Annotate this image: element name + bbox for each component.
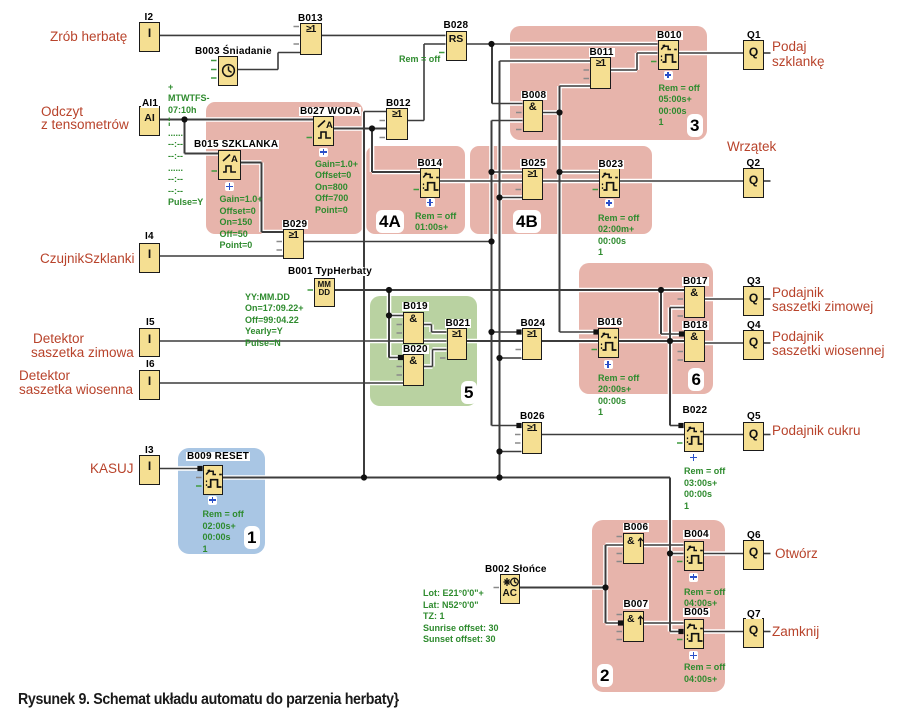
input I4	[139, 243, 160, 273]
wire V4 reset net vertical	[499, 61, 501, 478]
connector label Podajnik	[772, 286, 824, 300]
timer B009	[203, 465, 224, 495]
weekly timer B003	[218, 56, 239, 86]
parameter text at 219.5,194	[220, 194, 263, 252]
green parameter stubs	[196, 53, 683, 640]
wire B011.out to B010.in2	[611, 53, 658, 70]
wire region6 vertical to B018.in1	[661, 290, 684, 334]
output Q4	[743, 330, 764, 360]
parameter expand marker	[689, 651, 698, 660]
junction B027.out branch	[369, 125, 375, 131]
label B025	[520, 159, 547, 168]
label B009 RESET	[186, 452, 250, 461]
connector label CzujnikSzklanki	[40, 252, 135, 266]
label Q4	[746, 321, 762, 330]
junction B019.in1 branch	[386, 312, 392, 318]
connector B020.in1	[398, 355, 403, 360]
wire B017.out to Q3	[705, 298, 744, 300]
label Q7	[746, 610, 762, 619]
wire V2 B028-line down to B008.in1	[492, 44, 523, 104]
timer B016	[598, 328, 619, 358]
label B021	[445, 319, 472, 328]
junction B001 branch	[386, 287, 392, 293]
wire V3 to B025.in1	[492, 171, 523, 173]
wire Q5 stub	[764, 434, 771, 436]
label B023	[598, 160, 625, 169]
wire B029.out to V3 junction	[304, 241, 492, 243]
wire I5 to B021.in2	[160, 340, 447, 342]
connector label KASUJ	[90, 462, 134, 476]
input I5	[139, 328, 160, 358]
label B028	[443, 21, 470, 30]
junction B016 row region6	[667, 338, 673, 344]
input I2	[139, 22, 160, 52]
wire B005.out to Q7	[704, 631, 743, 633]
wire V1 reset net to B012.in1	[364, 112, 386, 478]
and-gate B019	[403, 312, 424, 344]
label I2	[144, 13, 155, 22]
parameter expand marker	[225, 182, 234, 191]
wire B023.out to Q2	[620, 180, 744, 182]
connector label Podajnik	[772, 330, 824, 344]
parameter expand marker	[604, 360, 613, 369]
wire V4 to B026.in4	[500, 451, 522, 453]
connector label z tensometrów	[41, 118, 129, 132]
label B020	[402, 345, 429, 354]
date block B001	[314, 278, 335, 307]
connector B016.in1	[593, 329, 598, 334]
wire Q4 stub	[764, 342, 771, 344]
parameter text at 168,81.5	[168, 82, 209, 210]
wire I3 to B009.in1	[160, 468, 203, 470]
or-gate B011	[590, 57, 611, 89]
label B011	[589, 48, 615, 57]
wire B026.out row to B022 and Q5	[542, 434, 743, 436]
output Q5	[743, 422, 764, 452]
wire B027.out to B012.in3 and B014.in1	[334, 129, 420, 173]
label I5	[145, 318, 156, 327]
wire AI1.out to B027.in1	[160, 119, 313, 121]
label B019	[402, 302, 429, 311]
wire Q1 stub	[764, 52, 771, 54]
section number 4B	[513, 210, 542, 233]
input I6	[139, 370, 160, 400]
junction RS line / V3a	[488, 41, 494, 47]
wire Q7 stub	[764, 631, 771, 633]
wire B013.out to B028.in1	[322, 34, 446, 36]
label B022	[682, 406, 709, 415]
parameter text at 399,54	[399, 54, 440, 66]
edge and-gate B007	[623, 611, 644, 642]
label Q3	[746, 277, 762, 286]
wire B021.out row to B024 B016 B018.in2	[467, 340, 684, 342]
wire B009.out reset line	[223, 477, 670, 479]
junction B002.out	[602, 584, 608, 590]
wire Q2 stub	[764, 180, 771, 182]
wire net V3 to B008.in3	[492, 120, 523, 122]
wire B028.out to B010.in1 (RS line)	[467, 43, 658, 45]
wire B007.out to B005.in1	[644, 622, 684, 624]
connector label Zamknij	[772, 625, 819, 639]
label B026	[519, 412, 546, 421]
parameter expand marker	[208, 496, 217, 505]
input AI1	[139, 106, 160, 136]
connector label saszetki zimowej	[772, 300, 873, 314]
connector B024.in1	[516, 329, 521, 334]
junction B001 line region6	[658, 287, 664, 293]
wire V3 to B024.in1	[492, 331, 522, 333]
region 3 highlight	[510, 26, 707, 140]
wire B012.out to B028.in2	[408, 44, 446, 121]
and-gate B008	[523, 100, 544, 132]
wire V3 to B026.in1	[492, 425, 522, 427]
region 1 highlight	[178, 448, 265, 554]
wire B008.out net (V559)	[543, 86, 599, 332]
connector B022.in1	[678, 423, 683, 428]
wire Q6 stub	[764, 553, 771, 555]
label B004	[683, 530, 710, 539]
parameter text at 415,210.5	[415, 211, 456, 234]
junction reset line V1	[361, 474, 367, 480]
unconnected input stubs	[196, 27, 683, 640]
or-gate B012	[386, 108, 408, 140]
label B008	[521, 91, 548, 100]
connector label saszetki wiosennej	[772, 344, 885, 358]
parameter text at 684,586.5	[684, 587, 725, 610]
connector label Podajnik cukru	[772, 424, 861, 438]
connector label saszetka wiosenna	[19, 383, 133, 397]
label B024	[520, 319, 547, 328]
connector label Otwórz	[775, 547, 818, 561]
label I4	[144, 232, 155, 241]
junction V4 to B025.in4	[496, 194, 502, 200]
wire V3 net vertical	[491, 121, 493, 426]
wire reset vertical to B004.in2 B005.in2	[670, 478, 684, 632]
connector label Podaj	[772, 40, 807, 54]
parameter expand marker	[605, 199, 614, 208]
output Q6	[743, 540, 764, 570]
label B027 WODA	[299, 107, 361, 116]
label B014	[417, 159, 444, 168]
label B007	[623, 600, 650, 609]
wire I4 to B029.in4	[160, 255, 283, 257]
or-gate B021	[447, 328, 468, 360]
astro clock B002	[500, 574, 520, 604]
junction AI1 branch	[181, 116, 187, 122]
wire B001.out to B017.in1	[335, 289, 685, 291]
region 2 highlight	[592, 520, 725, 692]
output Q3	[743, 286, 764, 316]
analog threshold B015	[218, 150, 241, 180]
label B029	[282, 220, 309, 229]
connector label Detektor	[19, 369, 70, 383]
label B005	[683, 608, 710, 617]
wire junction to B006.in2 and B007.in2	[606, 545, 624, 623]
section number 4A	[376, 210, 405, 233]
analog threshold B027	[313, 116, 334, 146]
wire B018.out to Q4	[705, 342, 744, 344]
parameter expand marker	[689, 573, 698, 582]
connector B018.in1	[679, 331, 684, 336]
wire V4 to B025.in4	[500, 197, 523, 199]
label B013	[297, 14, 324, 23]
connector label Detektor	[33, 332, 84, 346]
label B003 Śniadanie	[194, 47, 273, 56]
parameter expand marker	[689, 453, 698, 462]
wire AI junction down to B015.in1	[185, 120, 219, 154]
wire B025.out to B023.in2	[543, 180, 600, 182]
connector B005.in2	[678, 629, 683, 634]
section number 3	[687, 114, 703, 137]
parameter text at 658.5,82.5	[659, 83, 700, 129]
timer B022	[684, 422, 705, 452]
label AI1	[141, 99, 159, 108]
parameter text at 202.5,509	[203, 509, 244, 555]
parameter expand marker	[664, 71, 673, 80]
junction V3 to B025.in1	[488, 169, 494, 175]
wire B003.out to B013.in4	[238, 53, 300, 70]
parameter expand marker	[319, 148, 328, 157]
connector B026.in1	[516, 423, 521, 428]
junction V4 to B024.in4	[496, 355, 502, 361]
region 4A highlight left	[206, 102, 364, 234]
wire B004.out to Q6	[704, 553, 743, 555]
label B002 Słońce	[484, 565, 548, 574]
or-gate B029	[283, 229, 304, 259]
label B001 TypHerbaty	[287, 267, 373, 276]
label I3	[144, 446, 155, 455]
output Q7	[743, 618, 764, 648]
wire B015.out to B029.in1	[241, 163, 283, 233]
label I6	[145, 360, 156, 369]
wire V4 to B024.in4	[500, 357, 522, 359]
input I3	[139, 455, 160, 485]
parameter text at 598,212.5	[598, 213, 639, 259]
wire net V4 to B011.in1	[500, 60, 591, 62]
connector label Zrób herbatę	[50, 30, 127, 44]
label B015 SZKLANKA	[193, 140, 279, 149]
timer B005	[684, 619, 705, 649]
label B016	[597, 318, 624, 327]
connector label szklankę	[772, 55, 825, 69]
section number 6	[688, 368, 704, 391]
section number 2	[597, 664, 613, 687]
rs-latch B028	[446, 31, 467, 61]
region 4A highlight right	[366, 146, 465, 234]
edge and-gate B006	[623, 533, 644, 564]
connector label Odczyt	[41, 105, 83, 119]
or-gate B026	[522, 422, 543, 454]
label Q1	[746, 31, 762, 40]
label B017	[682, 277, 709, 286]
region 4B highlight	[470, 146, 652, 234]
connector B009.in1	[197, 466, 202, 471]
label B006	[623, 523, 650, 532]
and-gate B018	[684, 330, 705, 362]
or-gate B025	[522, 168, 543, 200]
wire B014.out to B025.in2	[440, 180, 522, 182]
timer B023	[599, 168, 620, 198]
junction V3 to B024.in1	[488, 329, 494, 335]
wire Q3 stub	[764, 298, 771, 300]
svg-text:A: A	[326, 120, 333, 131]
parameter text at 245,291.5	[245, 292, 304, 350]
junction V4 to B026.in4	[496, 448, 502, 454]
region 5 highlight	[370, 296, 478, 406]
region 6 highlight	[579, 263, 713, 395]
junction reset vertical B004	[667, 550, 673, 556]
label B018	[682, 321, 709, 330]
wire region6 vertical B017.in3 to B022.in1	[670, 308, 684, 426]
wire B006.out to B004.in1	[644, 544, 684, 546]
wire B020.out to B021.in3	[424, 350, 447, 367]
timer B004	[684, 541, 705, 571]
section number 1	[244, 526, 260, 549]
caption	[18, 691, 399, 709]
label Q2	[746, 159, 762, 168]
wire I6 to B020.in4	[160, 382, 403, 384]
junction B008.out	[556, 109, 562, 115]
connector B007.in2	[618, 620, 623, 625]
output Q1	[743, 40, 764, 70]
junction B008 net to B023.in1	[556, 169, 562, 175]
wire B002.out to junction	[520, 587, 606, 589]
and-gate B020	[403, 354, 424, 386]
parameter expand marker	[426, 198, 435, 207]
label Q6	[746, 531, 762, 540]
connector label saszetka zimowa	[31, 346, 134, 360]
wire I2 to B013.in2	[160, 34, 300, 36]
wire B001 branch to B019.in1 and B020.in1	[389, 290, 403, 358]
connector label Wrzątek	[727, 140, 776, 154]
svg-text:A: A	[231, 154, 238, 165]
parameter text at 684,466	[684, 466, 725, 512]
label Q5	[746, 412, 762, 421]
parameter text at 598,372.5	[598, 373, 639, 419]
junction reset line V4	[496, 474, 502, 480]
or-gate B013	[300, 23, 322, 55]
parameter text at 684,662	[684, 662, 725, 685]
parameter text at 315,158.5	[315, 159, 358, 217]
or-gate B024	[522, 328, 543, 360]
label B012	[385, 99, 412, 108]
output Q2	[743, 168, 764, 198]
label B010	[656, 31, 683, 40]
junction B029.out to V3	[488, 238, 494, 244]
and-gate B017	[684, 286, 705, 318]
timer B014	[420, 168, 440, 198]
parameter text at 423,588	[423, 588, 499, 646]
wire B019.out to B021.in1	[424, 325, 447, 333]
section number 5	[461, 381, 477, 404]
timer B010	[658, 40, 679, 70]
wire B010.out to Q1	[679, 52, 744, 54]
